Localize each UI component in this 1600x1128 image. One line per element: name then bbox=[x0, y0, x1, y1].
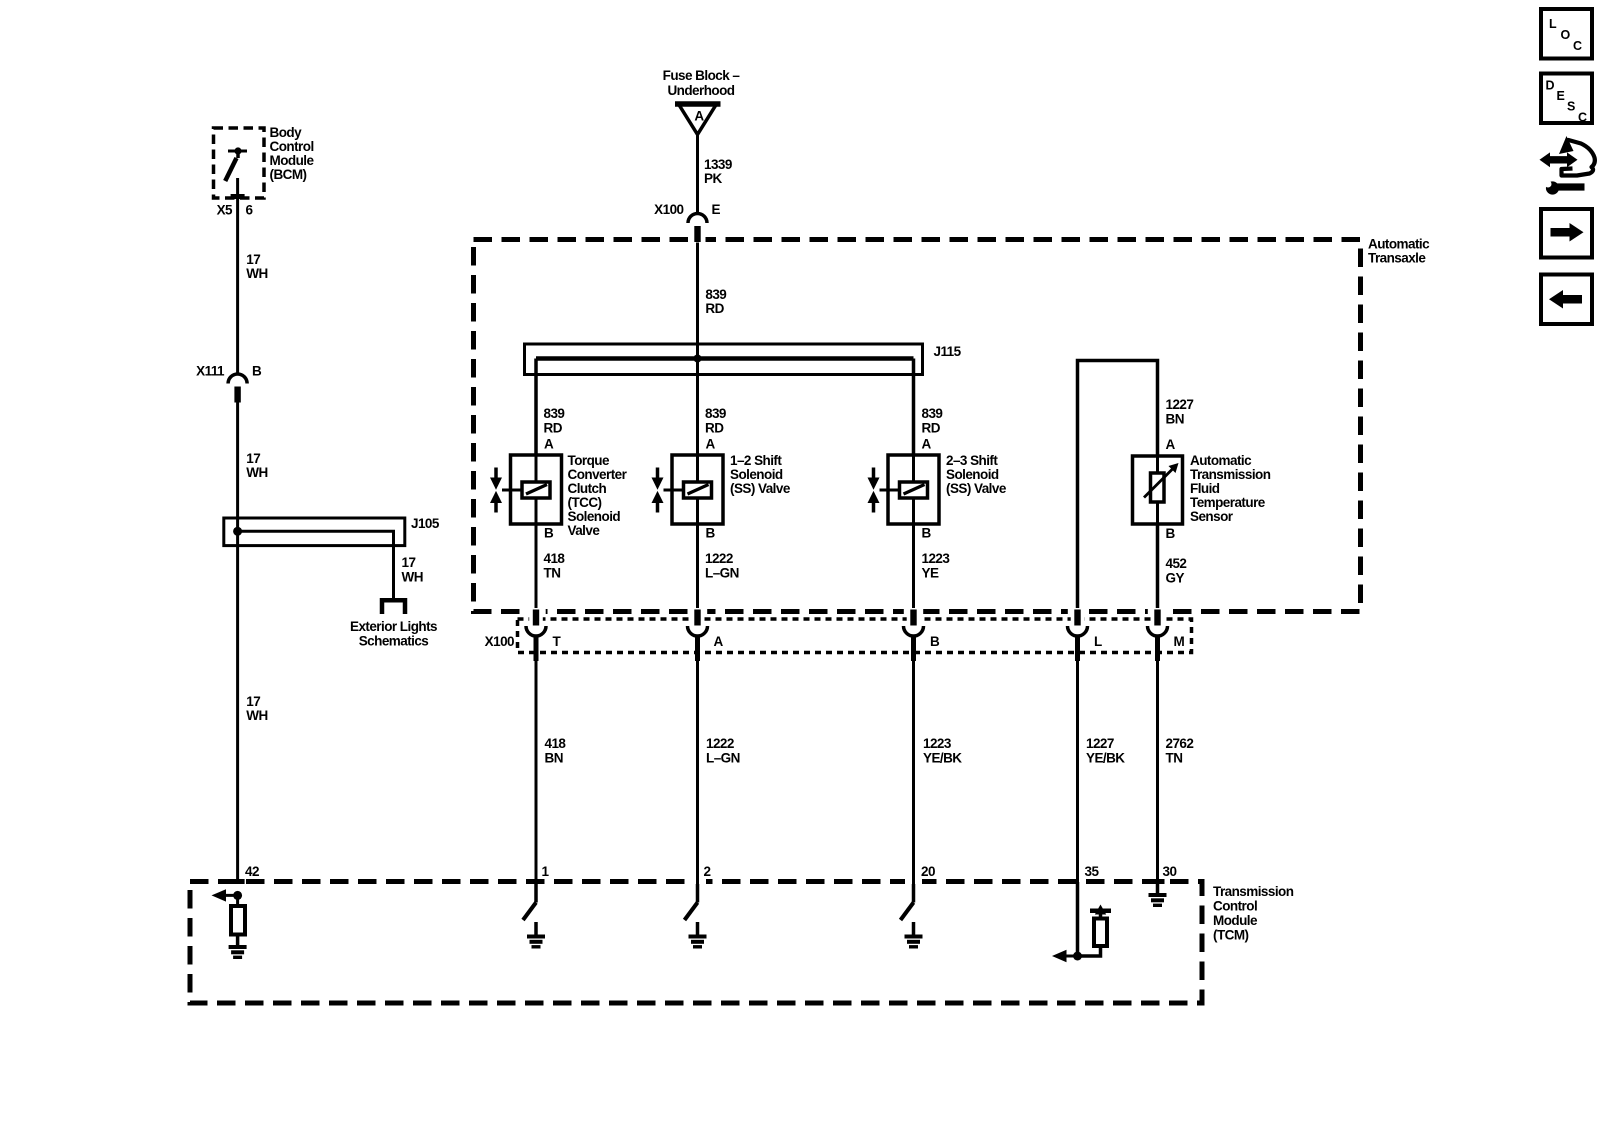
svg-text:D: D bbox=[1546, 79, 1555, 93]
svg-text:17: 17 bbox=[402, 555, 416, 570]
svg-text:Module: Module bbox=[1213, 913, 1258, 928]
svg-text:YE/BK: YE/BK bbox=[1086, 751, 1125, 766]
wire 1223 YE/BK (X100 B to TCM pin 20) bbox=[912, 661, 915, 882]
border tick at TCM pin 42 bbox=[231, 879, 245, 884]
svg-text:GY: GY bbox=[1166, 571, 1185, 586]
svg-text:B: B bbox=[1166, 526, 1176, 541]
wire 1227 YE/BK (X100 L to TCM pin 35) bbox=[1076, 661, 1079, 882]
automatic transmission fluid temperature sensor bbox=[1133, 456, 1183, 524]
svg-text:(BCM): (BCM) bbox=[270, 167, 307, 182]
svg-text:(SS) Valve: (SS) Valve bbox=[946, 481, 1007, 496]
svg-text:Temperature: Temperature bbox=[1190, 495, 1266, 510]
TCM pin 1 internal switch bbox=[523, 882, 545, 949]
TCM pin 35 internal circuit: wire and junction bbox=[1076, 882, 1080, 956]
svg-text:PK: PK bbox=[704, 171, 722, 186]
signal arrow (to left) at pin 35 bbox=[1052, 950, 1078, 962]
svg-text:418: 418 bbox=[544, 551, 566, 566]
svg-text:X111: X111 bbox=[196, 364, 225, 379]
svg-text:J115: J115 bbox=[934, 344, 962, 359]
ground at pin 42 bbox=[229, 945, 247, 949]
svg-text:839: 839 bbox=[544, 406, 565, 421]
svg-text:Sensor: Sensor bbox=[1190, 509, 1234, 524]
TCM pin 42 internal circuit: junction dot bbox=[233, 891, 242, 900]
2-3 shift solenoid (SS) valve bbox=[868, 455, 940, 524]
wire 1222 L-GN (solenoid to X100 A) bbox=[696, 524, 699, 612]
connector X5 pin 6 bbox=[217, 194, 254, 218]
svg-text:BN: BN bbox=[545, 751, 563, 766]
svg-text:A: A bbox=[694, 109, 704, 124]
svg-text:Converter: Converter bbox=[568, 467, 628, 482]
wire 1223 YE (solenoid to X100 B) bbox=[912, 524, 915, 612]
dash gap at TCM pin 20 crossing bbox=[905, 879, 922, 884]
connector X100 pin M bbox=[1148, 608, 1185, 661]
svg-text:B: B bbox=[252, 364, 262, 379]
border tick at TCM pin 30 bbox=[1151, 879, 1165, 884]
svg-text:L–GN: L–GN bbox=[705, 566, 739, 581]
svg-text:Control: Control bbox=[270, 139, 314, 154]
svg-text:Schematics: Schematics bbox=[359, 634, 429, 649]
splice block J105 bbox=[224, 518, 405, 546]
svg-text:Transmission: Transmission bbox=[1190, 467, 1271, 482]
svg-text:6: 6 bbox=[246, 203, 254, 218]
svg-text:1: 1 bbox=[542, 864, 550, 879]
svg-text:42: 42 bbox=[245, 864, 259, 879]
internal pull-up resistor at pin 35 bbox=[1078, 919, 1108, 957]
svg-text:B: B bbox=[544, 526, 554, 541]
signal arrow (to left) bbox=[212, 889, 238, 901]
wire 17 WH (BCM to X111) bbox=[236, 178, 239, 374]
svg-text:C: C bbox=[1578, 111, 1587, 125]
svg-text:C: C bbox=[1573, 39, 1582, 53]
TCM pin 20 internal switch bbox=[901, 882, 923, 949]
svg-text:RD: RD bbox=[544, 421, 563, 436]
connector X100 pin A bbox=[688, 608, 724, 661]
svg-text:1223: 1223 bbox=[923, 736, 952, 751]
wire 1222 L-GN (X100 A to TCM pin 2) bbox=[696, 661, 699, 882]
off-page connector to Exterior Lights Schematics bbox=[382, 600, 405, 614]
DESC icon box bbox=[1541, 74, 1592, 125]
svg-text:WH: WH bbox=[246, 266, 267, 281]
border tick at TCM pin 1 bbox=[529, 879, 543, 884]
1-2 shift solenoid (SS) valve bbox=[652, 455, 724, 524]
branch wire 17 WH to Exterior Lights bbox=[238, 531, 394, 598]
svg-text:Control: Control bbox=[1213, 899, 1257, 914]
wire 1227 BN loop (X100 L up and over to sensor pin A) bbox=[1078, 361, 1158, 612]
svg-text:B: B bbox=[706, 526, 716, 541]
svg-text:17: 17 bbox=[246, 451, 260, 466]
connector X100 pin L bbox=[1068, 608, 1103, 661]
svg-text:35: 35 bbox=[1085, 864, 1100, 879]
splice block J115 bbox=[525, 344, 923, 375]
svg-text:(TCM): (TCM) bbox=[1213, 928, 1249, 943]
svg-text:L–GN: L–GN bbox=[706, 751, 740, 766]
connector X100 pin T bbox=[526, 608, 562, 661]
svg-text:Torque: Torque bbox=[568, 453, 610, 468]
svg-text:TN: TN bbox=[1166, 751, 1183, 766]
wire 17 WH (X111 to J105 to TCM pin 42) bbox=[236, 400, 239, 882]
svg-text:(SS) Valve: (SS) Valve bbox=[730, 481, 791, 496]
svg-text:RD: RD bbox=[922, 421, 941, 436]
svg-text:B: B bbox=[922, 526, 932, 541]
schematic navigation icon (arrows and wrench) bbox=[1540, 136, 1595, 195]
back arrow icon box bbox=[1541, 275, 1592, 325]
svg-text:E: E bbox=[1557, 89, 1565, 103]
svg-text:17: 17 bbox=[246, 694, 260, 709]
svg-text:X5: X5 bbox=[217, 203, 233, 218]
svg-text:B: B bbox=[930, 634, 940, 649]
svg-text:Valve: Valve bbox=[568, 523, 601, 538]
svg-text:E: E bbox=[712, 202, 721, 217]
svg-text:A: A bbox=[714, 634, 724, 649]
svg-text:Automatic: Automatic bbox=[1190, 453, 1252, 468]
svg-text:A: A bbox=[922, 437, 932, 452]
svg-text:1339: 1339 bbox=[704, 157, 732, 172]
svg-text:1223: 1223 bbox=[922, 551, 951, 566]
svg-text:Fuse Block –: Fuse Block – bbox=[663, 68, 741, 83]
svg-text:WH: WH bbox=[246, 465, 267, 480]
Automatic Transaxle module box bbox=[474, 240, 1361, 612]
svg-text:Module: Module bbox=[270, 153, 315, 168]
svg-text:X100: X100 bbox=[485, 634, 514, 649]
ground at TCM pin 30 bbox=[1156, 882, 1160, 893]
svg-text:X100: X100 bbox=[654, 202, 683, 217]
svg-text:Transaxle: Transaxle bbox=[1368, 251, 1426, 266]
torque converter clutch solenoid valve (TCC) bbox=[490, 455, 562, 524]
svg-text:(TCC): (TCC) bbox=[568, 495, 602, 510]
svg-text:M: M bbox=[1174, 634, 1185, 649]
svg-text:1227: 1227 bbox=[1166, 397, 1194, 412]
svg-text:WH: WH bbox=[402, 570, 423, 585]
svg-text:WH: WH bbox=[246, 708, 267, 723]
svg-text:L: L bbox=[1094, 634, 1102, 649]
svg-text:Solenoid: Solenoid bbox=[946, 467, 999, 482]
svg-text:20: 20 bbox=[921, 864, 935, 879]
svg-text:Solenoid: Solenoid bbox=[568, 509, 621, 524]
internal resistor at pin 42 bbox=[231, 895, 245, 945]
svg-text:452: 452 bbox=[1166, 556, 1187, 571]
svg-text:839: 839 bbox=[922, 406, 943, 421]
svg-text:RD: RD bbox=[705, 301, 724, 316]
svg-text:Underhood: Underhood bbox=[667, 83, 734, 98]
svg-text:RD: RD bbox=[705, 421, 724, 436]
wire 452 GY (sensor pin B to X100 M) bbox=[1156, 524, 1160, 612]
wire 839 RD (J115 to 2-3 shift solenoid pin A) bbox=[912, 359, 916, 456]
svg-text:Exterior Lights: Exterior Lights bbox=[350, 619, 437, 634]
svg-text:Automatic: Automatic bbox=[1368, 237, 1430, 252]
svg-text:30: 30 bbox=[1163, 864, 1177, 879]
connector X100 pin E bbox=[654, 202, 720, 243]
svg-text:T: T bbox=[553, 634, 562, 649]
svg-text:Transmission: Transmission bbox=[1213, 884, 1294, 899]
wire 2762 TN (X100 M to TCM pin 30) bbox=[1156, 661, 1159, 882]
svg-text:S: S bbox=[1567, 100, 1575, 114]
wire 418 BN (X100 T to TCM pin 1) bbox=[535, 661, 538, 882]
svg-text:L: L bbox=[1549, 17, 1557, 31]
junction dot at J115 bbox=[694, 355, 702, 363]
svg-text:Fluid: Fluid bbox=[1190, 481, 1220, 496]
svg-text:Clutch: Clutch bbox=[568, 481, 607, 496]
Transmission Control Module (TCM) box bbox=[190, 882, 1202, 1004]
dash gap at TCM pin 2 crossing bbox=[689, 879, 706, 884]
svg-text:839: 839 bbox=[705, 406, 726, 421]
svg-text:1227: 1227 bbox=[1086, 736, 1114, 751]
svg-text:1222: 1222 bbox=[705, 551, 733, 566]
svg-text:YE: YE bbox=[922, 566, 939, 581]
wire 839 RD (J115 to 1-2 shift solenoid pin A) bbox=[696, 359, 699, 456]
svg-text:2: 2 bbox=[704, 864, 711, 879]
svg-text:1–2 Shift: 1–2 Shift bbox=[730, 453, 782, 468]
svg-text:Solenoid: Solenoid bbox=[730, 467, 783, 482]
TCM pin 2 internal switch bbox=[685, 882, 707, 949]
svg-text:1222: 1222 bbox=[706, 736, 734, 751]
svg-text:TN: TN bbox=[544, 566, 561, 581]
svg-text:418: 418 bbox=[545, 736, 567, 751]
svg-text:A: A bbox=[544, 437, 554, 452]
wire 1339 PK (fuse block to X100 E) bbox=[696, 135, 699, 214]
svg-text:YE/BK: YE/BK bbox=[923, 751, 962, 766]
wire 839 RD (J115 to TCC solenoid pin A) bbox=[534, 359, 538, 456]
svg-text:A: A bbox=[1166, 437, 1176, 452]
connector X100 pin B bbox=[904, 608, 941, 661]
LOC icon box bbox=[1541, 9, 1592, 59]
in-line connector X111 pin B bbox=[196, 364, 262, 403]
X100 in-line connector row (dotted box) bbox=[518, 619, 1192, 653]
BCM internal switch bbox=[225, 147, 247, 181]
svg-text:BN: BN bbox=[1166, 412, 1184, 427]
svg-text:O: O bbox=[1561, 28, 1571, 42]
forward arrow icon box bbox=[1541, 209, 1592, 258]
voltage supply symbol at pin 35 bbox=[1090, 905, 1111, 920]
junction dot in J105 bbox=[233, 527, 242, 536]
svg-text:2762: 2762 bbox=[1166, 736, 1194, 751]
svg-text:839: 839 bbox=[705, 287, 726, 302]
fuse block off-page triangle A bbox=[675, 104, 721, 135]
svg-text:17: 17 bbox=[246, 252, 260, 267]
wire 839 RD (X100 E to splice J115) bbox=[696, 243, 699, 359]
svg-text:2–3 Shift: 2–3 Shift bbox=[946, 453, 998, 468]
svg-text:J105: J105 bbox=[411, 516, 440, 531]
wire 418 TN (TCC solenoid to X100 T) bbox=[535, 524, 538, 612]
svg-text:A: A bbox=[706, 437, 716, 452]
Body Control Module (BCM) box bbox=[214, 128, 265, 198]
svg-text:Body: Body bbox=[270, 125, 303, 140]
